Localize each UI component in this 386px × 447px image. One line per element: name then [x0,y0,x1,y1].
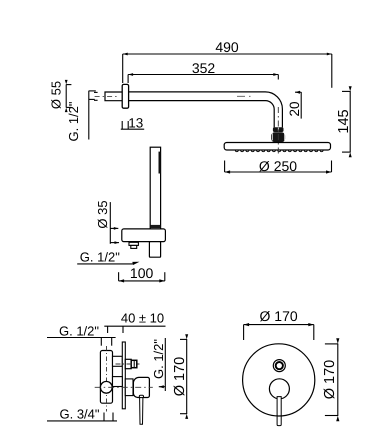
svg-text:20: 20 [287,101,302,116]
svg-text:352: 352 [192,60,216,76]
svg-text:G. 1/2": G. 1/2" [80,249,120,264]
svg-text:Ø 170: Ø 170 [322,360,338,400]
svg-text:Ø 250: Ø 250 [259,158,297,174]
svg-text:G. 1/2": G. 1/2" [66,101,81,141]
svg-text:G. 1/2": G. 1/2" [151,339,166,379]
svg-text:G. 1/2": G. 1/2" [59,323,99,338]
svg-text:40 ± 10: 40 ± 10 [121,311,164,326]
svg-text:100: 100 [130,265,154,281]
svg-text:Ø 35: Ø 35 [95,200,110,228]
svg-text:13: 13 [128,116,143,131]
svg-text:145: 145 [336,109,352,133]
svg-text:Ø 170: Ø 170 [172,357,188,397]
svg-text:G. 3/4": G. 3/4" [59,407,99,422]
svg-text:Ø 55: Ø 55 [49,81,64,109]
svg-text:Ø 170: Ø 170 [260,308,298,324]
svg-text:490: 490 [215,39,239,55]
